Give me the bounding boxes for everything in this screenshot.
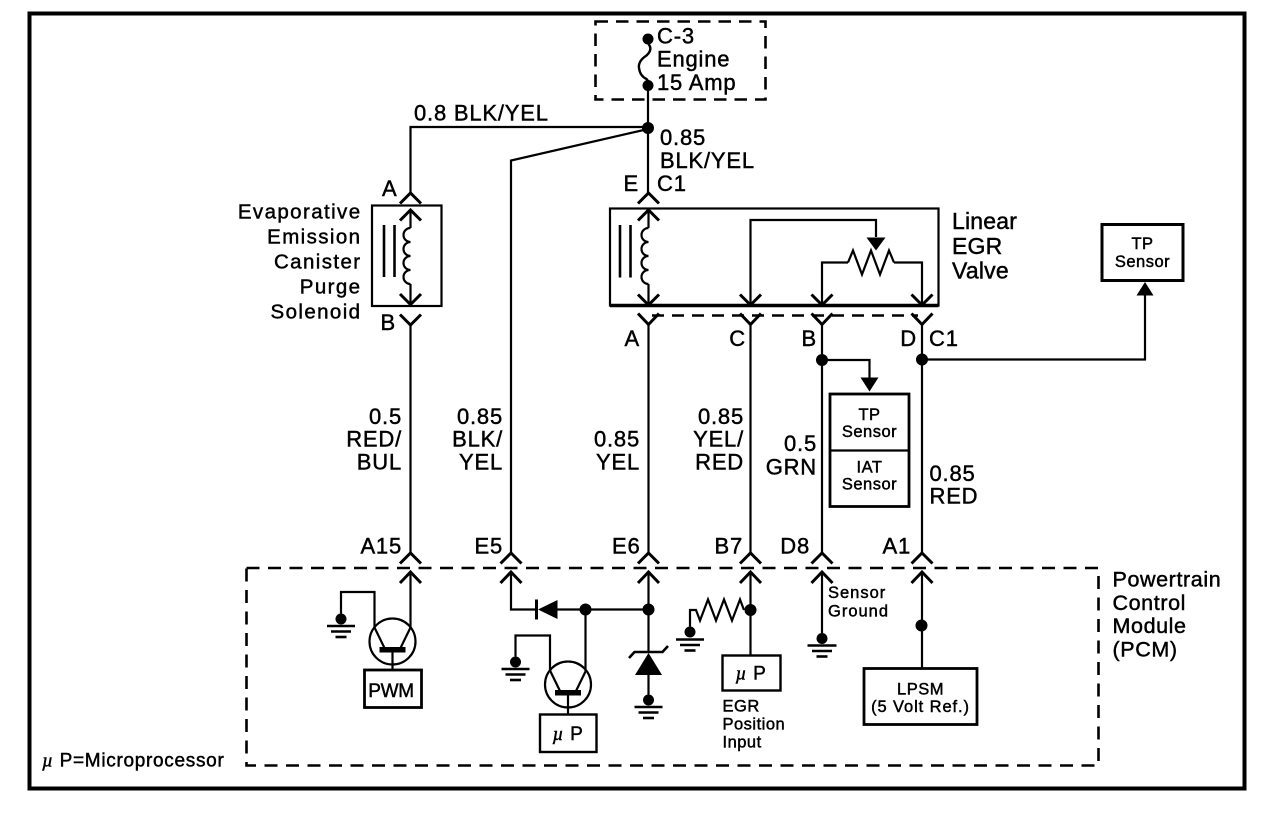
- svg-text:Ground: Ground: [828, 603, 889, 621]
- TP Sensor label: [1115, 235, 1170, 271]
- svg-text:Powertrain: Powertrain: [1113, 568, 1222, 592]
- svg-text:Purge: Purge: [300, 276, 362, 299]
- svg-text:(5 Volt Ref.): (5 Volt Ref.): [871, 698, 970, 716]
- node: junction on A1 wire: [916, 620, 928, 632]
- svg-text:Sensor: Sensor: [828, 584, 886, 602]
- svg-text:LPSM: LPSM: [897, 681, 944, 699]
- svg-text:RED: RED: [930, 484, 979, 509]
- svg-text:(PCM): (PCM): [1113, 637, 1178, 661]
- svg-text:µ P: µ P: [735, 664, 766, 685]
- wire: D splice to TP sensor (right): [922, 296, 1145, 360]
- svg-text:Evaporative: Evaporative: [238, 201, 362, 224]
- svg-text:D: D: [900, 326, 917, 351]
- svg-text:A: A: [382, 176, 397, 201]
- EGR box bottom edge (thick): [610, 304, 939, 307]
- LPSM label: [871, 681, 970, 716]
- svg-text:C1: C1: [657, 171, 687, 196]
- svg-text:BUL: BUL: [357, 450, 402, 475]
- svg-text:IAT: IAT: [857, 459, 883, 477]
- TP/IAT divider: [830, 449, 909, 451]
- svg-text:Canister: Canister: [274, 251, 362, 274]
- svg-text:0.5: 0.5: [784, 431, 817, 456]
- node: splice on D wire to TP sensor: [916, 354, 928, 366]
- connector: PCM A1 female: [912, 553, 933, 564]
- solenoid coil winding: [404, 210, 411, 304]
- svg-text:BLK/: BLK/: [452, 427, 503, 452]
- wire: horizontal 0.8 BLK/YEL run to solenoid pin A: [411, 127, 649, 193]
- wire label 0.85 BLK/YEL (E5): [452, 404, 503, 475]
- wire: pot left lead to pin B: [822, 263, 848, 305]
- wire: A15 into driver transistor Q1: [409, 572, 411, 628]
- svg-text:EGR: EGR: [723, 698, 760, 716]
- connector: PCM B7 female: [740, 553, 761, 564]
- svg-text:YEL: YEL: [459, 450, 503, 475]
- svg-text:EGR: EGR: [952, 233, 1002, 259]
- note: EGR Position Input: [723, 698, 786, 752]
- svg-text:Module: Module: [1113, 614, 1187, 638]
- svg-text:Control: Control: [1113, 591, 1187, 615]
- connector: EGR pin B arrow (inside box): [812, 295, 833, 306]
- svg-text:A1: A1: [882, 534, 911, 559]
- svg-text:BLK/YEL: BLK/YEL: [660, 148, 755, 173]
- connector: EGR pin C female: [740, 314, 761, 325]
- note: Sensor Ground: [828, 584, 889, 621]
- svg-text:0.85: 0.85: [594, 427, 640, 452]
- svg-text:µ P: µ P: [552, 724, 583, 745]
- wire label 0.5 RED/BUL: [346, 404, 402, 475]
- transistor Q2 (uP driven): [545, 662, 591, 715]
- wire: E5 to diode CR1: [511, 572, 535, 610]
- svg-text:Sensor: Sensor: [1115, 253, 1170, 271]
- svg-text:A15: A15: [360, 534, 402, 559]
- wire: B7 down to uP: [749, 572, 751, 656]
- connector: PCM A15 male arrow: [400, 572, 421, 583]
- svg-text:Engine: Engine: [657, 47, 730, 72]
- node: junction B7/resistor: [745, 604, 757, 616]
- fuse C-3 Engine 15 Amp: [639, 34, 654, 92]
- connector: PCM A15 female: [400, 553, 421, 564]
- EGR pot wiper arrow (filled): [867, 238, 886, 251]
- connector: PCM E6 female: [638, 553, 659, 564]
- TP / IAT sensor labels: [842, 406, 897, 494]
- wire: EGR internal pot supply (C branch): [751, 220, 877, 304]
- node: splice on B wire to TP/IAT sensors: [816, 354, 828, 366]
- connector: EGR pin E female: [638, 193, 659, 204]
- svg-text:GRN: GRN: [766, 455, 817, 480]
- wire: pot right lead to pin D: [894, 263, 922, 305]
- svg-text:Solenoid: Solenoid: [271, 301, 362, 324]
- svg-text:B: B: [802, 326, 817, 351]
- diode CR1 (points left): [537, 600, 558, 620]
- uP box (Q2 base): [540, 715, 597, 753]
- wire: A1 down to LPSM: [921, 572, 923, 669]
- EGR valve name: [952, 208, 1017, 284]
- node: junction to Q2 base: [580, 604, 592, 616]
- TP Sensor box (top right): [1102, 225, 1183, 281]
- svg-text:D8: D8: [780, 534, 810, 559]
- resistor R1 (pull to ground): [690, 600, 744, 627]
- EGR position sensor resistor (potentiometer): [848, 251, 894, 275]
- connector: PCM D8 male arrow: [812, 572, 833, 583]
- svg-text:0.8 BLK/YEL: 0.8 BLK/YEL: [414, 101, 549, 126]
- transistor Q1 (PWM driver): [370, 619, 416, 671]
- connector: EGR pin C arrow (inside box): [740, 295, 761, 306]
- svg-text:C-3: C-3: [657, 24, 695, 49]
- PWM box: [365, 670, 422, 708]
- wire label 0.85 BLK/YEL: [660, 125, 755, 173]
- svg-text:YEL: YEL: [596, 450, 640, 475]
- svg-text:Sensor: Sensor: [842, 423, 897, 441]
- wire label 0.5 GRN: [766, 431, 817, 480]
- svg-text:Emission: Emission: [267, 226, 361, 249]
- arrow into TP/IAT sensor box (filled): [861, 378, 879, 392]
- connector: EGR pin E male arrow: [638, 210, 659, 221]
- svg-text:Position: Position: [723, 715, 786, 733]
- svg-text:RED: RED: [695, 450, 744, 475]
- connector: PCM B7 male arrow: [740, 572, 761, 583]
- wire: diagonal branch to E5 wire: [511, 130, 646, 553]
- wire: EGR A down to PCM E6: [647, 325, 649, 553]
- ground (sensor ground D8): [808, 633, 837, 657]
- arrow into TP sensor box (filled): [1137, 282, 1154, 296]
- fuse label C-3 / Engine / 15 Amp: [657, 24, 736, 96]
- connector: PCM D8 female: [812, 553, 833, 564]
- solenoid L1 box: Evaporative Emission Canister Purge Solenoid: [372, 206, 442, 307]
- svg-text:E: E: [624, 171, 639, 196]
- wire: E6 down to zener: [647, 572, 649, 652]
- EGR coil core lines: [619, 225, 622, 278]
- EGR connector dashed line: [652, 314, 918, 316]
- svg-text:Valve: Valve: [952, 258, 1009, 284]
- wire: EGR B down to PCM D8: [821, 325, 823, 553]
- PCM name: Powertrain Control Module (PCM): [1113, 568, 1222, 662]
- svg-text:B7: B7: [714, 534, 743, 559]
- connector: PCM E5 male arrow: [501, 572, 522, 583]
- ground (Q2): [502, 657, 530, 681]
- ground (R1): [676, 627, 704, 651]
- wire: diode to E6 wire: [558, 608, 649, 610]
- svg-text:E6: E6: [612, 534, 641, 559]
- svg-text:Input: Input: [723, 733, 762, 751]
- connector: EGR pin D female: [912, 314, 933, 325]
- wire: solenoid B down to PCM A15: [409, 325, 411, 553]
- svg-text:YEL/: YEL/: [693, 427, 744, 452]
- connector: PCM E5 female: [501, 553, 522, 564]
- svg-text:Sensor: Sensor: [842, 476, 897, 494]
- wire: Q2 collector to ground: [516, 636, 551, 672]
- svg-text:A: A: [625, 326, 640, 351]
- ground (Q1): [327, 614, 355, 638]
- connector: EGR pin B female: [812, 314, 833, 325]
- connector: solenoid pin A male arrow: [400, 210, 421, 221]
- connector: EGR pin A arrow (inside box): [638, 295, 659, 306]
- svg-text:µ P=Microprocessor: µ P=Microprocessor: [42, 751, 224, 772]
- node: junction on E6 wire: [643, 604, 655, 616]
- svg-text:0.85: 0.85: [457, 404, 503, 429]
- svg-text:C: C: [729, 326, 746, 351]
- svg-text:Linear: Linear: [952, 208, 1017, 234]
- connector: PCM A1 male arrow: [912, 572, 933, 583]
- svg-text:RED/: RED/: [346, 427, 402, 452]
- solenoid name text: [238, 201, 362, 324]
- svg-text:PWM: PWM: [368, 681, 414, 702]
- wire: D8 to sensor ground: [821, 572, 823, 633]
- TP Sensor / IAT Sensor box: [830, 394, 909, 507]
- wire: B splice to TP/IAT sensor box: [822, 360, 870, 378]
- connector: PCM E6 male arrow: [638, 572, 659, 583]
- ground (zener): [635, 695, 663, 719]
- EGR valve box: [610, 209, 939, 306]
- svg-text:0.85: 0.85: [660, 125, 706, 150]
- wire: EGR D down to PCM A1: [921, 325, 923, 553]
- wire label 0.85 RED: [930, 461, 979, 509]
- connector: EGR pin D arrow (inside box): [912, 295, 933, 306]
- svg-text:0.85: 0.85: [930, 461, 976, 486]
- LPSM box: [864, 669, 977, 725]
- svg-text:0.5: 0.5: [369, 404, 402, 429]
- svg-text:E5: E5: [474, 534, 503, 559]
- EGR coil winding: [642, 210, 649, 304]
- zener diode CR2: [629, 646, 668, 695]
- connector: solenoid pin B female: [400, 315, 421, 326]
- svg-text:15 Amp: 15 Amp: [657, 70, 736, 95]
- svg-text:C1: C1: [929, 326, 959, 351]
- connector: EGR pin A female: [638, 314, 659, 325]
- connector: solenoid pin B arrow (inside box): [400, 294, 421, 305]
- wire label 0.85 YEL/RED: [693, 404, 744, 475]
- svg-text:B: B: [381, 310, 396, 335]
- PCM dashed box: [247, 568, 1099, 766]
- wire label 0.85 YEL: [594, 427, 640, 475]
- wire: junction down to transistor Q2: [584, 610, 586, 672]
- wire: EGR C down to PCM B7: [749, 325, 751, 553]
- node: splice junction under fuse: [642, 122, 654, 134]
- svg-text:TP: TP: [858, 406, 880, 424]
- connector: solenoid pin A female: [400, 193, 421, 204]
- uP box (B7): [723, 656, 781, 691]
- svg-text:0.85: 0.85: [698, 404, 744, 429]
- solenoid core lines: [383, 225, 386, 277]
- wire: fuse down to junction and to EGR pin E: [647, 88, 649, 193]
- fuse box C-3 (dashed): [596, 22, 766, 100]
- svg-text:TP: TP: [1131, 235, 1153, 253]
- wire: Q1 collector to ground: [341, 592, 375, 628]
